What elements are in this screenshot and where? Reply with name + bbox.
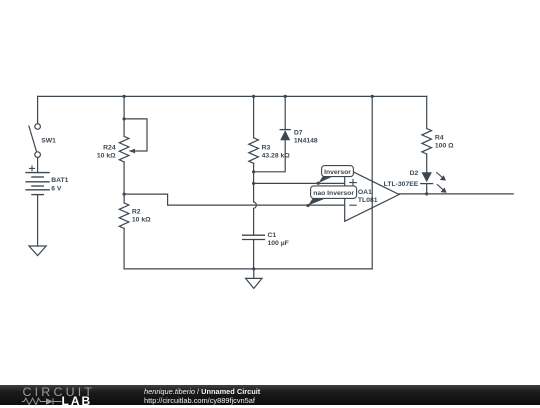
footer bar <box>0 385 540 405</box>
svg-text:R4: R4 <box>435 135 444 142</box>
wire bottom rail <box>124 268 372 270</box>
resistor R4 100 ohm <box>422 129 454 155</box>
wire R24 wiper loop <box>124 119 147 151</box>
svg-text:Inversor: Inversor <box>324 169 351 176</box>
svg-text:OA1: OA1 <box>358 189 372 196</box>
battery BAT1 6 V <box>26 166 69 195</box>
wire R3 bottom through nodes, hop over inverting wire, to C1 <box>254 163 257 235</box>
wire R2 bottom to bottom rail <box>123 228 125 269</box>
svg-text:10 kΩ: 10 kΩ <box>132 217 151 224</box>
wire op-amp output <box>399 193 513 195</box>
wire R4 to D2 <box>426 154 428 172</box>
svg-text:43.28 kΩ: 43.28 kΩ <box>262 153 291 160</box>
wire battery to ground <box>37 195 39 246</box>
resistor R2 10 k <box>119 203 151 229</box>
potentiometer R24 10 k <box>97 136 135 162</box>
callout label "Inversor" pointing at non-inverting input <box>317 166 354 185</box>
wire switch to battery <box>37 158 39 173</box>
switch SW1 <box>29 124 56 158</box>
svg-text:10 kΩ: 10 kΩ <box>97 153 116 160</box>
svg-text:6 V: 6 V <box>51 185 62 192</box>
wire C1 ground stub <box>253 269 255 279</box>
op-amp OA1 TL081 <box>345 168 399 222</box>
resistor R3 43.28 k <box>249 138 290 164</box>
CircuitLab logo text CIRCUIT <box>23 385 96 399</box>
svg-text:R3: R3 <box>262 145 271 152</box>
svg-text:1N4148: 1N4148 <box>294 138 318 145</box>
svg-text:R2: R2 <box>132 208 141 215</box>
footer line 2: url <box>144 396 255 405</box>
capacitor C1 100 uF <box>243 232 289 247</box>
footer line 1: author / title <box>144 387 260 396</box>
svg-text:C1: C1 <box>268 232 277 239</box>
wire R3 branch vertical top <box>253 96 255 137</box>
CircuitLab logo text LAB <box>62 394 93 408</box>
wire op-amp power pins V+ to V- crossing symbol <box>371 96 373 269</box>
callout label "nao Inversor" pointing at inverting input <box>306 186 356 207</box>
svg-text:100 µF: 100 µF <box>268 240 289 247</box>
LED D2 LTL-307EE <box>384 170 447 193</box>
wire node to inverting input (with step) <box>124 194 345 205</box>
svg-text:TL081: TL081 <box>358 197 378 204</box>
wire left vertical from rail to switch <box>37 96 39 123</box>
svg-text:LTL-307EE: LTL-307EE <box>384 181 419 188</box>
svg-text:D7: D7 <box>294 129 303 136</box>
wire top supply rail <box>38 95 427 97</box>
wire non-inverting input <box>254 182 345 184</box>
wire D7 branch vertical top <box>284 96 286 129</box>
svg-text:100 Ω: 100 Ω <box>435 143 454 150</box>
CircuitLab logo squiggle (resistor + diode) <box>22 397 62 406</box>
diode D7 1N4148 <box>280 129 318 144</box>
ground (C1 / bottom rail) <box>246 278 262 288</box>
wire C1 to bottom rail <box>253 240 255 269</box>
ground (battery) <box>29 246 46 256</box>
svg-text:D2: D2 <box>410 170 419 177</box>
wire R4 branch from rail <box>426 96 428 128</box>
svg-text:BAT1: BAT1 <box>51 177 68 184</box>
wire D2 cathode to output node <box>426 184 428 194</box>
junction dots <box>123 95 429 271</box>
wire D7 anode down and left to R3 node <box>254 140 286 172</box>
svg-text:SW1: SW1 <box>41 137 56 144</box>
svg-text:R24: R24 <box>103 144 116 151</box>
wire R24 bottom to node <box>123 162 125 203</box>
wire R24 branch vertical <box>123 96 125 136</box>
svg-text:nao Inversor: nao Inversor <box>313 190 354 197</box>
